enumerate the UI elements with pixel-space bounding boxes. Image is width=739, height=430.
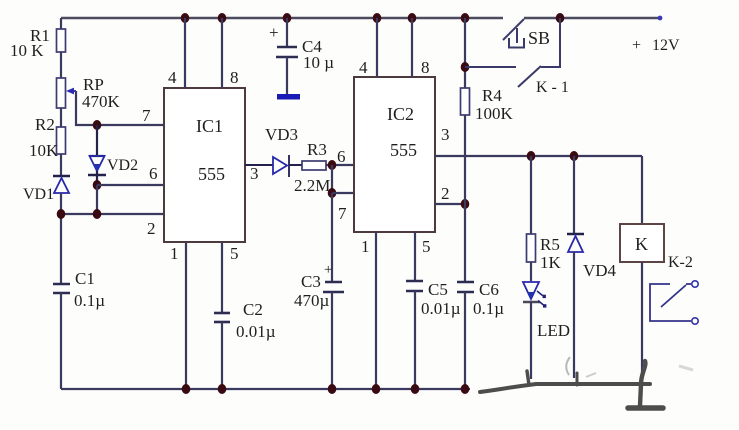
svg-text:470K: 470K: [82, 92, 121, 111]
svg-text:C1: C1: [75, 269, 95, 288]
svg-text:VD1: VD1: [23, 186, 54, 203]
node C5 bottom: [411, 384, 420, 394]
op-amp IC1 555 box: [164, 88, 245, 242]
wire R3 to pin6 IC2: [326, 164, 354, 166]
wire pin3 IC2 to K: [435, 155, 642, 157]
svg-text:1K: 1K: [540, 253, 562, 272]
wire K branch down: [641, 156, 643, 224]
wire VD3 to R3: [289, 164, 302, 166]
svg-text:K: K: [635, 234, 648, 254]
wire hand-drawn tick LED: [527, 371, 529, 385]
svg-text:VD3: VD3: [265, 125, 298, 144]
wire K-1 right vertical: [541, 18, 560, 67]
node pin2 left junction: [57, 209, 66, 219]
svg-text:LED: LED: [537, 321, 570, 340]
svg-text:VD2: VD2: [107, 157, 138, 174]
diode VD1: [53, 175, 70, 177]
svg-text:2: 2: [441, 184, 450, 203]
svg-text:7: 7: [338, 204, 347, 223]
svg-text:R2: R2: [35, 115, 55, 134]
ground C4 blue bar: [277, 94, 300, 100]
svg-text:1: 1: [170, 244, 179, 263]
wire RP to R2: [60, 108, 62, 127]
node VD2 top junction on pin7 wire: [93, 120, 102, 130]
svg-text:0.01µ: 0.01µ: [421, 299, 461, 318]
wire R1 to RP: [60, 52, 62, 78]
wire top +12V rail left of SB: [61, 17, 503, 20]
wire pin5 IC2 to C5: [414, 232, 416, 281]
resistor R4: [461, 88, 470, 115]
wire R4 branch top: [464, 18, 466, 88]
node C6 bottom: [461, 384, 470, 394]
diode VD4: [567, 233, 584, 235]
svg-text:555: 555: [390, 140, 417, 160]
svg-text:10K: 10K: [29, 141, 59, 160]
svg-text:6: 6: [337, 147, 346, 166]
svg-text:6: 6: [149, 164, 158, 183]
wire pin7 IC2: [332, 192, 354, 194]
faint artifact smudge 1: [586, 373, 596, 377]
wire pin1 IC1 to bottom: [185, 242, 187, 389]
node C3 bottom: [328, 384, 337, 394]
node R3 out junction: [328, 160, 337, 170]
wire VD2 node down to pin2 wire: [96, 185, 98, 214]
resistor R2: [57, 127, 66, 154]
wire left rail R1 top lead: [60, 18, 62, 29]
node C2 bottom: [218, 384, 227, 394]
svg-text:0.01µ: 0.01µ: [236, 322, 276, 341]
wire pin8 IC1: [221, 18, 223, 88]
wire hand-drawn K down stroke: [640, 361, 645, 406]
wire LED down: [530, 302, 532, 379]
node R5 branch on pin3 wire: [527, 151, 536, 161]
wire pin6 IC1: [97, 184, 164, 186]
node pin1 IC1 bottom: [182, 384, 191, 394]
svg-text:2: 2: [147, 219, 156, 238]
relay coil K box: [620, 224, 664, 262]
svg-text:2.2M: 2.2M: [294, 176, 330, 195]
node pin8 IC2 top: [408, 13, 417, 23]
wire VD4 down: [573, 252, 575, 378]
wire pin1 IC2 to bottom: [375, 232, 377, 389]
svg-text:+: +: [324, 262, 332, 278]
wire junction down to pin7 IC2: [331, 165, 333, 193]
svg-text:+: +: [632, 37, 641, 54]
wire top +12V rail right of SB: [524, 17, 660, 20]
svg-text:3: 3: [441, 125, 450, 144]
wire C6 to bottom rail: [464, 292, 466, 389]
switch K-1 relay contact: [518, 66, 541, 87]
svg-text:K-2: K-2: [668, 254, 693, 271]
svg-text:R4: R4: [482, 86, 502, 105]
wire pin8 IC2: [411, 18, 413, 77]
svg-text:C2: C2: [243, 300, 263, 319]
capacitor C2: [214, 312, 230, 315]
svg-text:4: 4: [168, 68, 177, 87]
svg-text:4: 4: [359, 58, 368, 77]
potentiometer RP: [57, 78, 66, 108]
resistor R3: [302, 161, 326, 170]
wire C3 to bottom rail: [331, 292, 333, 389]
svg-text:+: +: [269, 23, 279, 42]
node pin2 mid junction: [93, 209, 102, 219]
svg-text:R5: R5: [540, 235, 560, 254]
svg-text:5: 5: [422, 237, 431, 256]
svg-text:7: 7: [142, 106, 151, 125]
node SB/K-1 left branch: [461, 62, 470, 72]
node VD2 bottom junction pin6: [93, 180, 102, 190]
wire VD1 to pin2 node: [60, 193, 62, 284]
wire junction down to C3: [331, 193, 333, 282]
svg-text:C3: C3: [301, 272, 321, 291]
wire pin2 IC1: [61, 213, 164, 215]
svg-text:0.1µ: 0.1µ: [473, 299, 504, 318]
wire hand-drawn ground stroke main: [480, 384, 650, 392]
node pin4 IC2 top: [373, 13, 382, 23]
wire pin5 IC1 to C2: [221, 242, 223, 313]
wire R2 to VD1: [60, 154, 62, 176]
wire K box down: [641, 262, 643, 384]
wire pin4 IC1: [184, 18, 186, 88]
svg-text:10 K: 10 K: [10, 41, 44, 60]
svg-text:K - 1: K - 1: [536, 79, 569, 96]
svg-text:1: 1: [361, 237, 370, 256]
wire R5 branch: [530, 156, 532, 234]
wire pin3 IC1 to VD3: [245, 164, 273, 166]
node pin2 IC2 junction: [461, 199, 470, 209]
wire R5 to LED: [530, 262, 532, 281]
svg-text:10 µ: 10 µ: [303, 53, 334, 72]
wire pin4 IC2: [376, 18, 378, 77]
switch SB pushbutton: [503, 19, 524, 40]
LED: [523, 282, 539, 299]
faint artifact arc: [566, 357, 570, 375]
capacitor C4: [283, 13, 292, 23]
svg-text:5: 5: [230, 244, 239, 263]
op-amp IC2 555 box: [354, 77, 435, 232]
svg-text:IC1: IC1: [196, 116, 223, 136]
capacitor C1: [53, 283, 70, 286]
diode VD2: [89, 155, 105, 157]
svg-text:0.1µ: 0.1µ: [74, 291, 105, 310]
node VD4 branch on pin3 wire: [570, 151, 579, 161]
wire VD2 to pin6 wire: [96, 171, 98, 185]
node top rail K-1 right branch: [556, 13, 565, 23]
capacitor C6: [457, 281, 474, 284]
svg-text:8: 8: [230, 68, 239, 87]
svg-text:SB: SB: [528, 28, 550, 48]
wire pin7 node down to VD2: [96, 125, 98, 156]
node pin4 IC1 top: [181, 13, 190, 23]
node top rail R4 branch: [461, 13, 470, 23]
svg-text:R3: R3: [307, 140, 327, 159]
svg-text:470µ: 470µ: [294, 291, 330, 310]
wire C1 to bottom rail: [60, 293, 62, 389]
wire hand-drawn tick VD4: [576, 373, 579, 385]
wire bottom rail: [61, 388, 470, 390]
svg-text:3: 3: [250, 164, 259, 183]
capacitor C5: [406, 280, 423, 283]
capacitor C3: [325, 281, 342, 284]
wire pin2 IC2 right: [435, 203, 465, 205]
wire R4 to pin2 node to C6: [464, 115, 466, 282]
svg-text:VD4: VD4: [583, 261, 617, 280]
svg-text:100K: 100K: [475, 104, 514, 123]
diode VD3: [273, 157, 287, 174]
resistor R5: [527, 234, 536, 262]
node pin7 IC2 junction: [328, 188, 337, 198]
wire VD4 branch: [573, 156, 575, 234]
svg-text:555: 555: [198, 164, 225, 184]
node +12V rail end dot: [658, 16, 663, 21]
wire C5 to bottom rail: [414, 291, 416, 389]
svg-text:C5: C5: [428, 280, 448, 299]
wire C2 to bottom rail: [221, 322, 223, 389]
faint artifact smudge 2: [679, 366, 693, 370]
node pin1 IC2 bottom: [372, 384, 381, 394]
ground bar hand-drawn: [628, 405, 663, 411]
resistor R1: [57, 29, 66, 52]
node pin8 IC1 top: [218, 13, 227, 23]
svg-text:8: 8: [421, 58, 430, 77]
svg-text:IC2: IC2: [387, 104, 414, 124]
wire RP wiper to pin7 line: [76, 91, 164, 125]
svg-text:C6: C6: [479, 280, 499, 299]
svg-text:12V: 12V: [652, 37, 680, 54]
